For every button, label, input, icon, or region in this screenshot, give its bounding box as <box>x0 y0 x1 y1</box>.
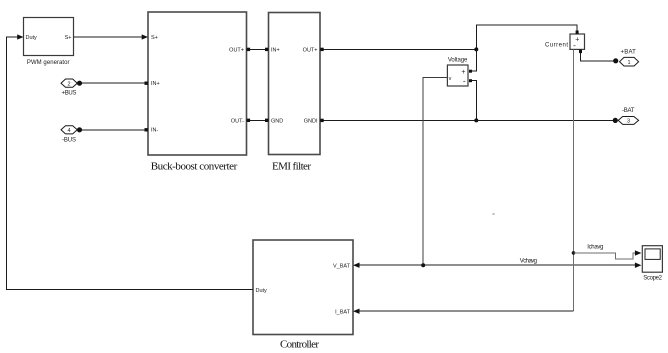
junction J3 <box>421 263 425 267</box>
wire EMI OUT+ to node J1 <box>320 48 476 51</box>
Controller U4 <box>253 240 353 351</box>
wire node J1 down to Voltage + <box>472 49 476 71</box>
Buck-boost converter U2 <box>148 12 247 173</box>
wire I_BAT: to Controller I_BAT <box>353 309 574 314</box>
svg-text:-BAT: -BAT <box>622 108 635 114</box>
port 1 +BAT <box>620 50 639 66</box>
svg-text:-BUS: -BUS <box>62 137 76 143</box>
wire -BUS to Buck IN- <box>79 128 148 131</box>
svg-text:-: - <box>573 41 576 50</box>
junction dot -BUS <box>77 127 82 132</box>
wire Duty feedback: Controller Duty to PWM input <box>7 34 254 289</box>
svg-text:GND: GND <box>271 119 283 125</box>
wire Ichavg: node J4 to Scope2 input 1 <box>574 245 642 259</box>
wire EMI GNDI to -BAT <box>320 119 615 122</box>
wire Buck OUT- to EMI GND <box>247 119 269 122</box>
svg-text:Voltage: Voltage <box>448 58 468 64</box>
svg-text:v: v <box>449 76 452 82</box>
svg-text:IN+: IN+ <box>271 48 280 54</box>
PWM generator U1 <box>24 18 74 67</box>
svg-text:+BUS: +BUS <box>62 90 77 96</box>
svg-text:V_BAT: V_BAT <box>333 264 351 270</box>
svg-text:+BAT: +BAT <box>621 50 637 56</box>
svg-text:EMI filter: EMI filter <box>272 161 311 173</box>
svg-text:IN-: IN- <box>151 128 159 134</box>
port 2 +BUS <box>61 79 77 96</box>
svg-text:IN+: IN+ <box>151 81 160 87</box>
Scope2 <box>642 246 662 282</box>
Voltage measurement U5 <box>447 58 472 86</box>
svg-text:S+: S+ <box>151 35 158 41</box>
svg-text:Duty: Duty <box>256 288 268 294</box>
svg-text:Controller: Controller <box>280 339 319 351</box>
junction J2 <box>474 118 478 122</box>
svg-text:Vchavg: Vchavg <box>520 258 537 264</box>
svg-text:+: + <box>575 37 579 44</box>
stray mark <box>493 213 495 215</box>
port 4 -BUS <box>61 126 77 144</box>
svg-text:Scope2: Scope2 <box>643 275 662 281</box>
junction J4 Ichavg <box>572 251 576 255</box>
junction dot -BAT <box>613 118 618 123</box>
svg-text:-: - <box>463 77 466 86</box>
svg-text:+: + <box>461 69 465 76</box>
wire Voltage - to node J2 <box>472 81 476 121</box>
svg-text:2: 2 <box>67 81 70 87</box>
svg-text:GNDI: GNDI <box>304 119 318 125</box>
wire S+: PWM S+ to Buck S+ <box>74 34 149 39</box>
svg-text:Ichavg: Ichavg <box>587 245 603 251</box>
svg-text:OUT+: OUT+ <box>303 48 318 54</box>
wire node J1 up to Current + <box>476 25 577 50</box>
wire Vchavg: node J3 to Controller V_BAT and Scope2 <box>353 258 641 268</box>
port 3 -BAT <box>618 108 638 125</box>
junction J1 <box>474 47 478 51</box>
svg-text:Duty: Duty <box>26 35 38 41</box>
wire Current i down to I_BAT row <box>573 49 575 311</box>
svg-text:I_BAT: I_BAT <box>335 310 351 316</box>
junction dot +BUS <box>77 81 82 86</box>
svg-text:4: 4 <box>67 128 70 134</box>
svg-text:Buck-boost converter: Buck-boost converter <box>151 161 238 173</box>
wire Current - to +BAT <box>581 53 616 61</box>
svg-text:3: 3 <box>627 119 630 125</box>
svg-text:Current: Current <box>545 42 568 48</box>
wire Buck OUT+ to EMI IN+ <box>247 48 269 51</box>
EMI filter U3 <box>269 13 321 173</box>
svg-text:S+: S+ <box>65 35 72 41</box>
svg-text:OUT+: OUT+ <box>229 48 244 54</box>
Current measurement U6 <box>545 31 585 54</box>
junction dot +BAT <box>613 58 618 63</box>
wire Voltage v to node J3 <box>423 78 447 266</box>
svg-text:PWM generator: PWM generator <box>27 60 70 66</box>
svg-text:1: 1 <box>627 60 630 66</box>
wire +BUS to Buck IN+ <box>79 82 148 85</box>
svg-text:OUT-: OUT- <box>231 119 244 125</box>
